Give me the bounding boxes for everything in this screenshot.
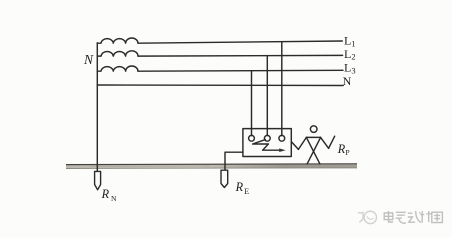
winding W2 (phase L2 coil) xyxy=(97,51,138,56)
wire PE (box to earth electrode RE) xyxy=(225,152,243,170)
neutral point bar xyxy=(96,43,98,171)
equipment enclosure box xyxy=(243,129,291,157)
earth ground band xyxy=(66,164,357,169)
svg-text:R: R xyxy=(101,187,110,201)
person right arm xyxy=(321,137,329,148)
person left arm xyxy=(298,137,306,149)
terminal pin 1 xyxy=(249,135,255,141)
earth electrode RN xyxy=(95,171,101,189)
svg-text:N: N xyxy=(111,194,117,203)
earth electrode RE xyxy=(221,170,228,187)
person shoulders xyxy=(306,136,320,138)
terminal pin 2 xyxy=(264,135,270,141)
svg-text:E: E xyxy=(244,187,249,196)
resistance stroke RP xyxy=(329,136,335,148)
svg-text:R: R xyxy=(337,142,346,156)
wire L3 xyxy=(138,69,343,72)
fault lightning arrow xyxy=(253,140,280,151)
winding W1 (phase L1 coil) xyxy=(97,38,138,43)
svg-text:N: N xyxy=(83,52,94,67)
person leg 1 xyxy=(306,137,320,164)
winding W3 (phase L3 coil) xyxy=(97,66,138,71)
wire L1 tap to box terminal 3 xyxy=(281,42,283,136)
person head xyxy=(310,126,317,133)
wire L2 tap to box terminal 2 xyxy=(266,56,268,136)
wire N xyxy=(97,84,343,87)
wire L1 xyxy=(138,41,342,43)
svg-text:N: N xyxy=(343,74,352,88)
svg-text:P: P xyxy=(345,148,349,157)
wire L3 tap to box terminal 1 xyxy=(251,71,253,136)
terminal pin 3 xyxy=(279,135,285,141)
person leg 2 xyxy=(307,137,321,164)
watermark logo xyxy=(358,211,377,223)
watermark text 电气设计圈 xyxy=(384,211,442,223)
svg-text:L2: L2 xyxy=(344,47,356,62)
wire contact (box to person hand) xyxy=(291,142,298,150)
fault arrowhead xyxy=(279,148,285,152)
svg-text:R: R xyxy=(235,180,244,194)
wire L2 xyxy=(138,54,343,57)
